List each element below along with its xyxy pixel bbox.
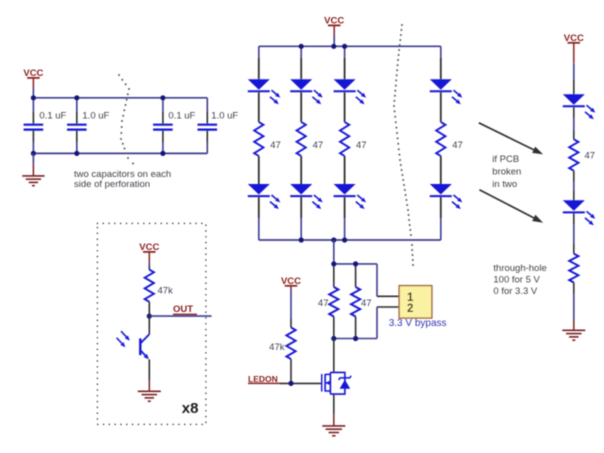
svg-text:47: 47 bbox=[452, 140, 463, 151]
svg-text:0 for 3.3 V: 0 for 3.3 V bbox=[493, 286, 537, 297]
svg-text:3.3 V bypass: 3.3 V bypass bbox=[389, 318, 447, 329]
svg-text:in two: in two bbox=[492, 179, 517, 190]
svg-text:side of perforation: side of perforation bbox=[74, 179, 150, 190]
svg-text:47k: 47k bbox=[269, 342, 285, 353]
svg-text:47: 47 bbox=[356, 140, 367, 151]
svg-text:1.0 uF: 1.0 uF bbox=[82, 110, 109, 121]
svg-text:1.0 uF: 1.0 uF bbox=[211, 110, 238, 121]
svg-text:47: 47 bbox=[361, 298, 372, 309]
svg-text:LEDON: LEDON bbox=[248, 374, 278, 384]
svg-text:if PCB: if PCB bbox=[492, 154, 519, 165]
svg-text:47k: 47k bbox=[158, 286, 174, 297]
svg-text:47: 47 bbox=[585, 150, 596, 161]
svg-text:0.1 uF: 0.1 uF bbox=[39, 110, 66, 121]
svg-text:2: 2 bbox=[407, 303, 413, 315]
svg-text:OUT: OUT bbox=[173, 304, 193, 315]
svg-text:100 for 5 V: 100 for 5 V bbox=[493, 274, 540, 285]
svg-text:0.1 uF: 0.1 uF bbox=[168, 110, 195, 121]
svg-text:47: 47 bbox=[270, 140, 281, 151]
svg-text:47: 47 bbox=[313, 140, 324, 151]
svg-text:broken: broken bbox=[492, 167, 521, 178]
svg-text:through-hole: through-hole bbox=[493, 263, 546, 274]
svg-text:47: 47 bbox=[318, 298, 329, 309]
svg-text:x8: x8 bbox=[182, 400, 199, 417]
